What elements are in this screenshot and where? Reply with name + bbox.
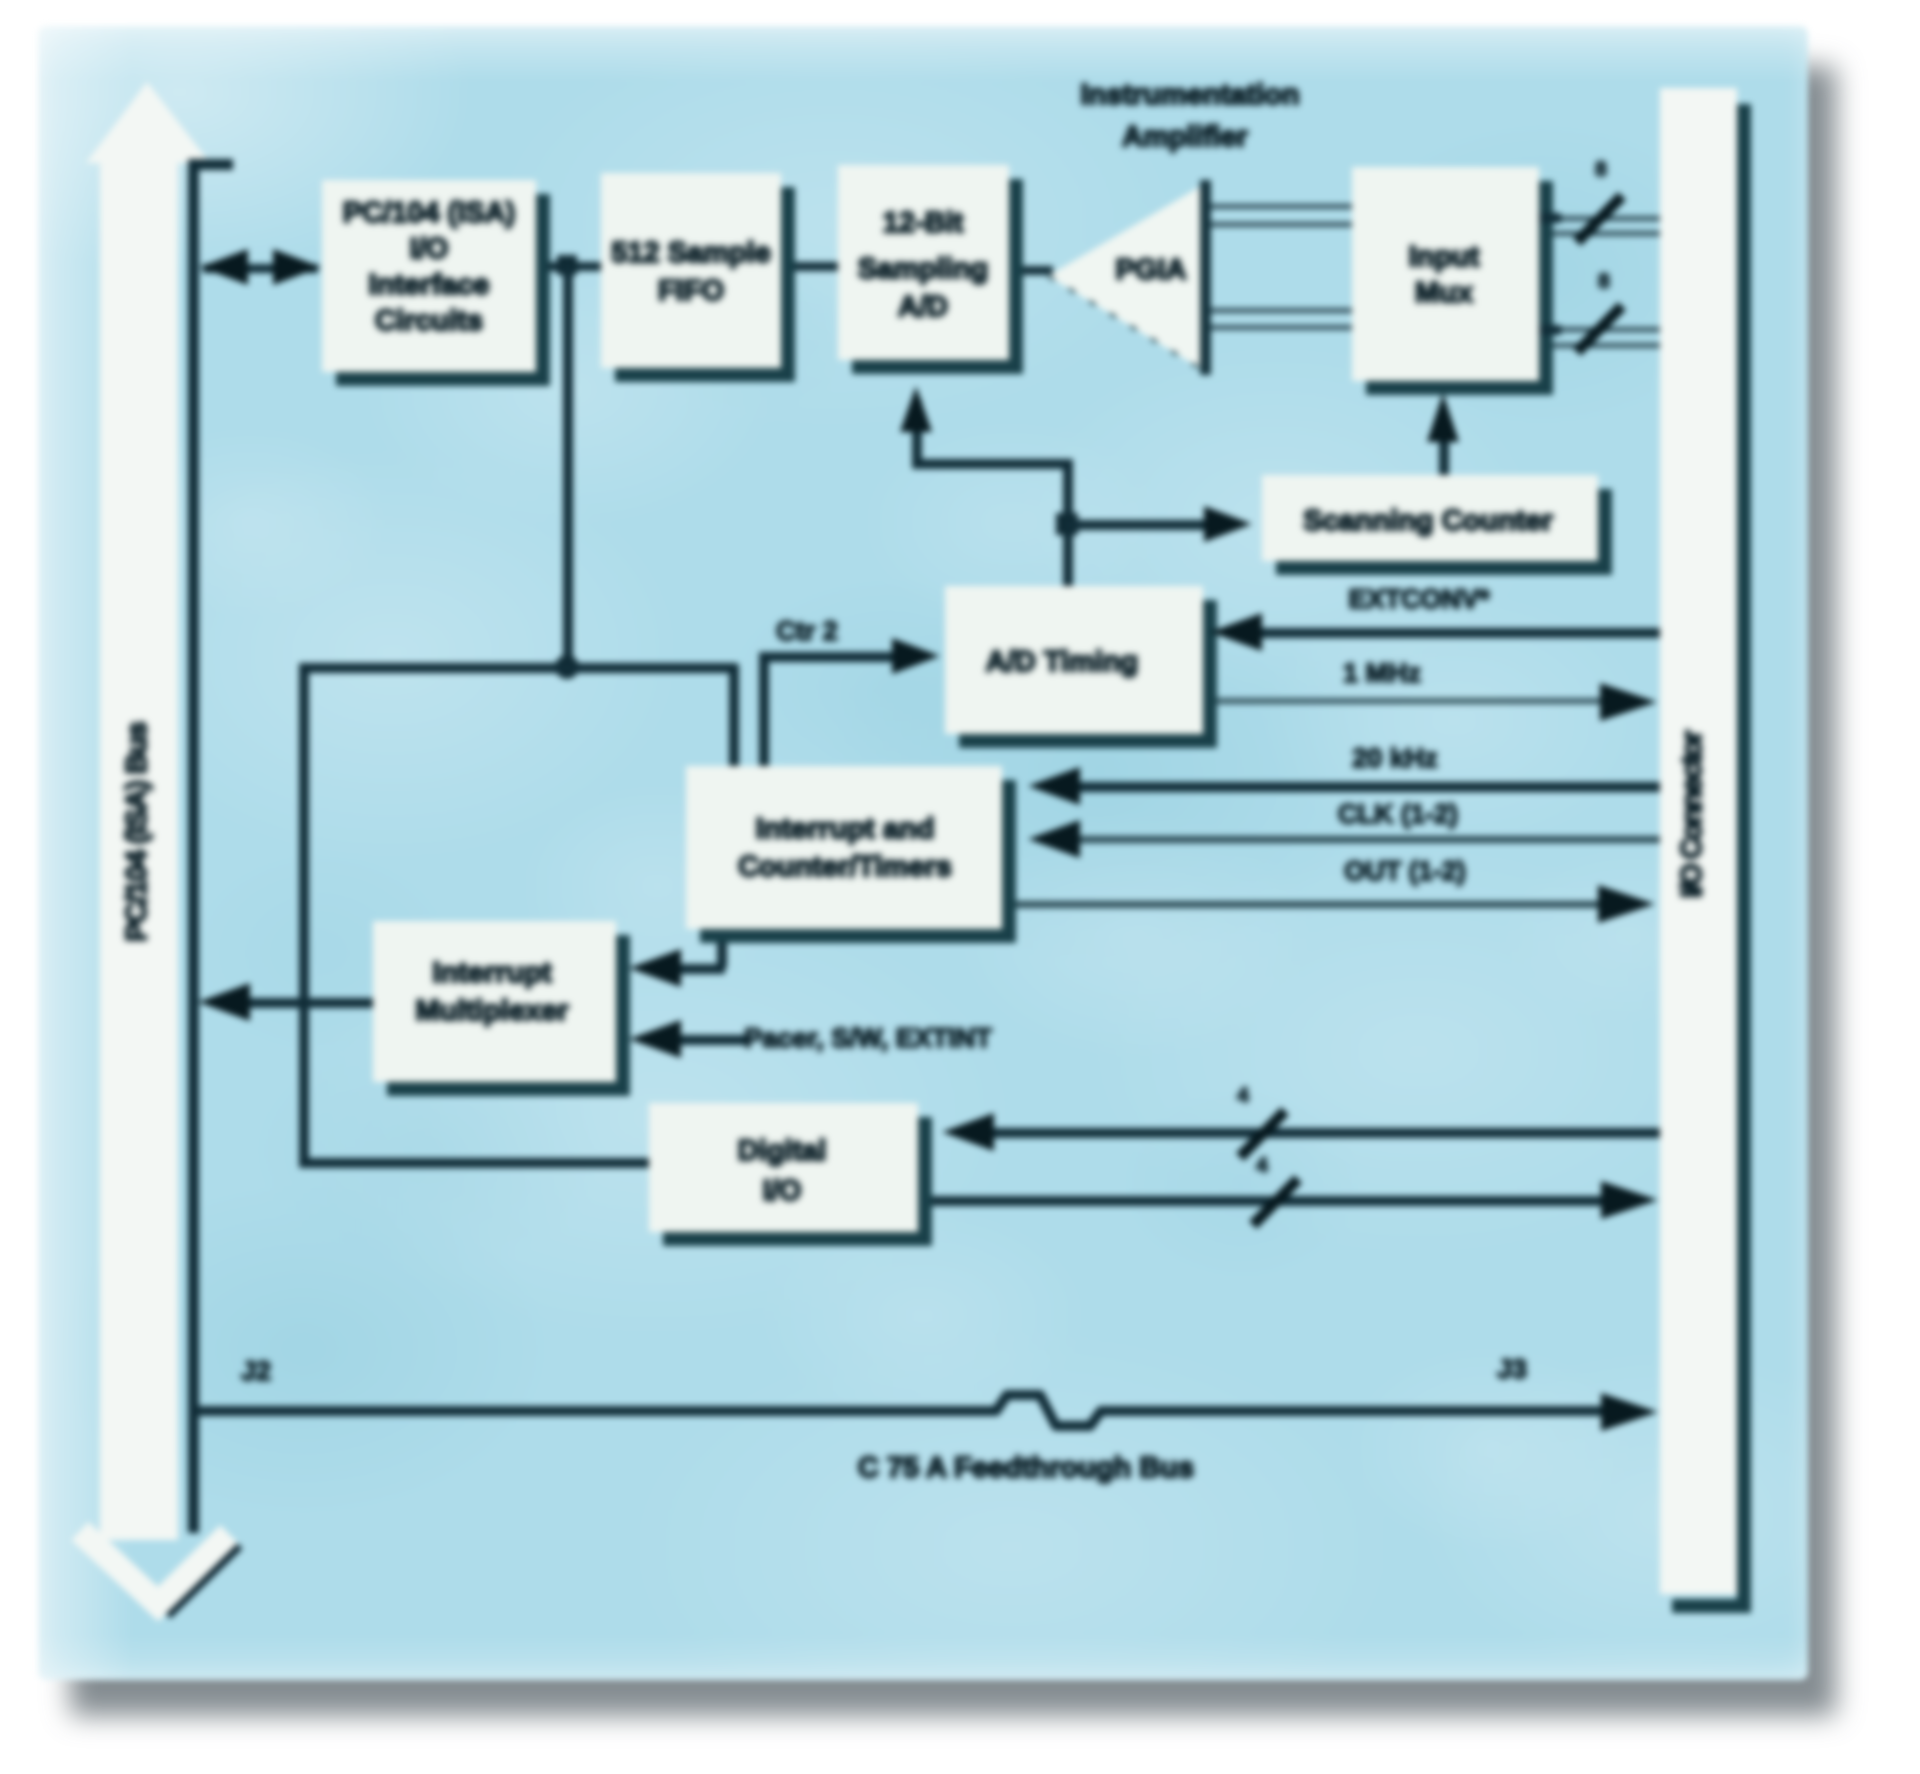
- svg-text:4: 4: [1256, 1154, 1268, 1177]
- svg-text:A/D Timing: A/D Timing: [986, 646, 1139, 678]
- wire: ADC to amplifier: [1023, 266, 1053, 275]
- block: 12-bit sampling A/D: [838, 165, 1023, 374]
- wire: 20 kHz into counter box: [1028, 767, 1660, 805]
- block: Interrupt and Counter/Timers: [686, 766, 1016, 943]
- svg-text:Multiplexer: Multiplexer: [415, 995, 568, 1027]
- wire: OUT (1-2) to connector: [1016, 885, 1655, 923]
- bus slash mark digital out: [1253, 1179, 1298, 1225]
- wire: bottom feedthrough bus: [192, 1393, 1658, 1431]
- svg-text:Sampling: Sampling: [858, 253, 989, 285]
- wire: interface to FIFO: [548, 262, 601, 271]
- svg-text:J2: J2: [241, 1356, 271, 1386]
- wire: digital outputs to connector: [932, 1181, 1658, 1219]
- svg-text:Ctr 2: Ctr 2: [776, 616, 838, 646]
- svg-text:PC/104 (ISA) Bus: PC/104 (ISA) Bus: [121, 722, 153, 941]
- svg-text:Counter/Timers: Counter/Timers: [738, 851, 952, 883]
- svg-text:8: 8: [1598, 270, 1610, 293]
- wire: mux to connector channel pair 2: [1553, 327, 1660, 332]
- wire: vertical from junction to counter box (left): [729, 664, 739, 766]
- svg-text:4: 4: [1237, 1084, 1249, 1107]
- svg-text:Circuits: Circuits: [375, 305, 483, 337]
- block: 512 Sample FIFO: [601, 173, 795, 382]
- svg-text:I/O Connector: I/O Connector: [1676, 730, 1708, 897]
- wire: left branch down to digital IO: [299, 663, 309, 1165]
- svg-text:PC/104 (ISA): PC/104 (ISA): [343, 197, 515, 229]
- junction dot mid bus: [555, 655, 579, 679]
- svg-text:CLK (1-2): CLK (1-2): [1338, 799, 1458, 829]
- wire: host bus vertical line: [188, 159, 199, 1533]
- wire: EXTCONV* from connector into A/D timing: [1210, 613, 1660, 651]
- junction dot on scan line: [1056, 513, 1078, 535]
- left bus connector arrow (white double arrow): [80, 82, 238, 1614]
- block: PC/104 interface circuits: [322, 180, 550, 386]
- svg-text:PGIA: PGIA: [1116, 254, 1187, 286]
- wire: ADC sample clock elbow with up arrow: [900, 386, 1073, 589]
- wire: FIFO to ADC: [795, 262, 838, 271]
- wire: counter to A/D timing arrow: [759, 638, 940, 766]
- wire: amp to mux pair 2: [1211, 308, 1352, 313]
- wire: arrow into scanning counter: [1067, 506, 1252, 542]
- bus slash mark digital in: [1240, 1111, 1285, 1157]
- wire: digital inputs from connector: [942, 1113, 1660, 1151]
- svg-text:J3: J3: [1497, 1354, 1527, 1384]
- block: Scanning Counter: [1262, 475, 1612, 575]
- wire: top stub of bus line: [188, 159, 233, 170]
- wire: CLK (1-2) into counter box: [1028, 820, 1660, 858]
- svg-text:512 Sample: 512 Sample: [611, 237, 771, 269]
- svg-text:Input: Input: [1409, 241, 1480, 273]
- wire: 1 MHz out to connector: [1217, 683, 1657, 721]
- block: Interrupt Multiplexer: [373, 921, 630, 1096]
- svg-text:C 75 A Feedthrough Bus: C 75 A Feedthrough Bus: [858, 1452, 1194, 1484]
- svg-text:Instrumentation: Instrumentation: [1080, 79, 1299, 111]
- svg-text:1 MHz: 1 MHz: [1343, 658, 1421, 688]
- svg-text:I/O: I/O: [410, 233, 449, 265]
- svg-text:OUT (1-2): OUT (1-2): [1344, 856, 1466, 886]
- junction dot on interface-FIFO wire: [557, 255, 577, 275]
- wire: vertical drop from interface-FIFO wire: [563, 265, 573, 667]
- wire: amp to mux pair 1: [1211, 204, 1352, 209]
- svg-text:I/O: I/O: [763, 1175, 802, 1207]
- svg-text:Mux: Mux: [1415, 277, 1473, 309]
- block: Digital I/O: [649, 1103, 932, 1246]
- svg-text:20 kHz: 20 kHz: [1352, 743, 1438, 773]
- wire: mux to connector channel pair 1: [1553, 216, 1660, 221]
- svg-text:Amplifier: Amplifier: [1122, 121, 1248, 153]
- svg-text:Interface: Interface: [369, 269, 490, 301]
- op-amp: instrumentation amplifier triangle: [1048, 180, 1211, 375]
- wire: bidirectional arrow bus to interface box: [200, 249, 321, 285]
- wire: interrupt sources into interrupt mux: [629, 1020, 750, 1058]
- wire: interrupt mux out to host bus: [198, 983, 373, 1021]
- svg-text:12-Bit: 12-Bit: [883, 207, 964, 239]
- svg-text:FIFO: FIFO: [658, 275, 724, 307]
- svg-text:Digital: Digital: [738, 1135, 827, 1167]
- svg-text:EXTCONV*: EXTCONV*: [1348, 584, 1490, 614]
- svg-text:A/D: A/D: [898, 291, 948, 323]
- bus slash mark 1: [1577, 196, 1622, 242]
- svg-text:Interrupt and: Interrupt and: [756, 813, 935, 845]
- wire: counter box down to interrupt mux arrow: [629, 943, 727, 987]
- svg-text:8: 8: [1595, 158, 1607, 181]
- svg-text:Interrupt: Interrupt: [432, 957, 552, 989]
- wire: horizontal mid distribution: [299, 663, 737, 673]
- right I/O connector bar: [1660, 88, 1751, 1613]
- bus slash mark 2: [1577, 306, 1622, 352]
- svg-text:Pacer, S/W, EXTINT: Pacer, S/W, EXTINT: [744, 1023, 992, 1053]
- wire: scanning counter up to mux arrow: [1427, 393, 1459, 475]
- svg-text:Scanning Counter: Scanning Counter: [1303, 505, 1553, 537]
- block: Input Mux: [1352, 167, 1553, 395]
- block: A/D Timing: [945, 586, 1217, 748]
